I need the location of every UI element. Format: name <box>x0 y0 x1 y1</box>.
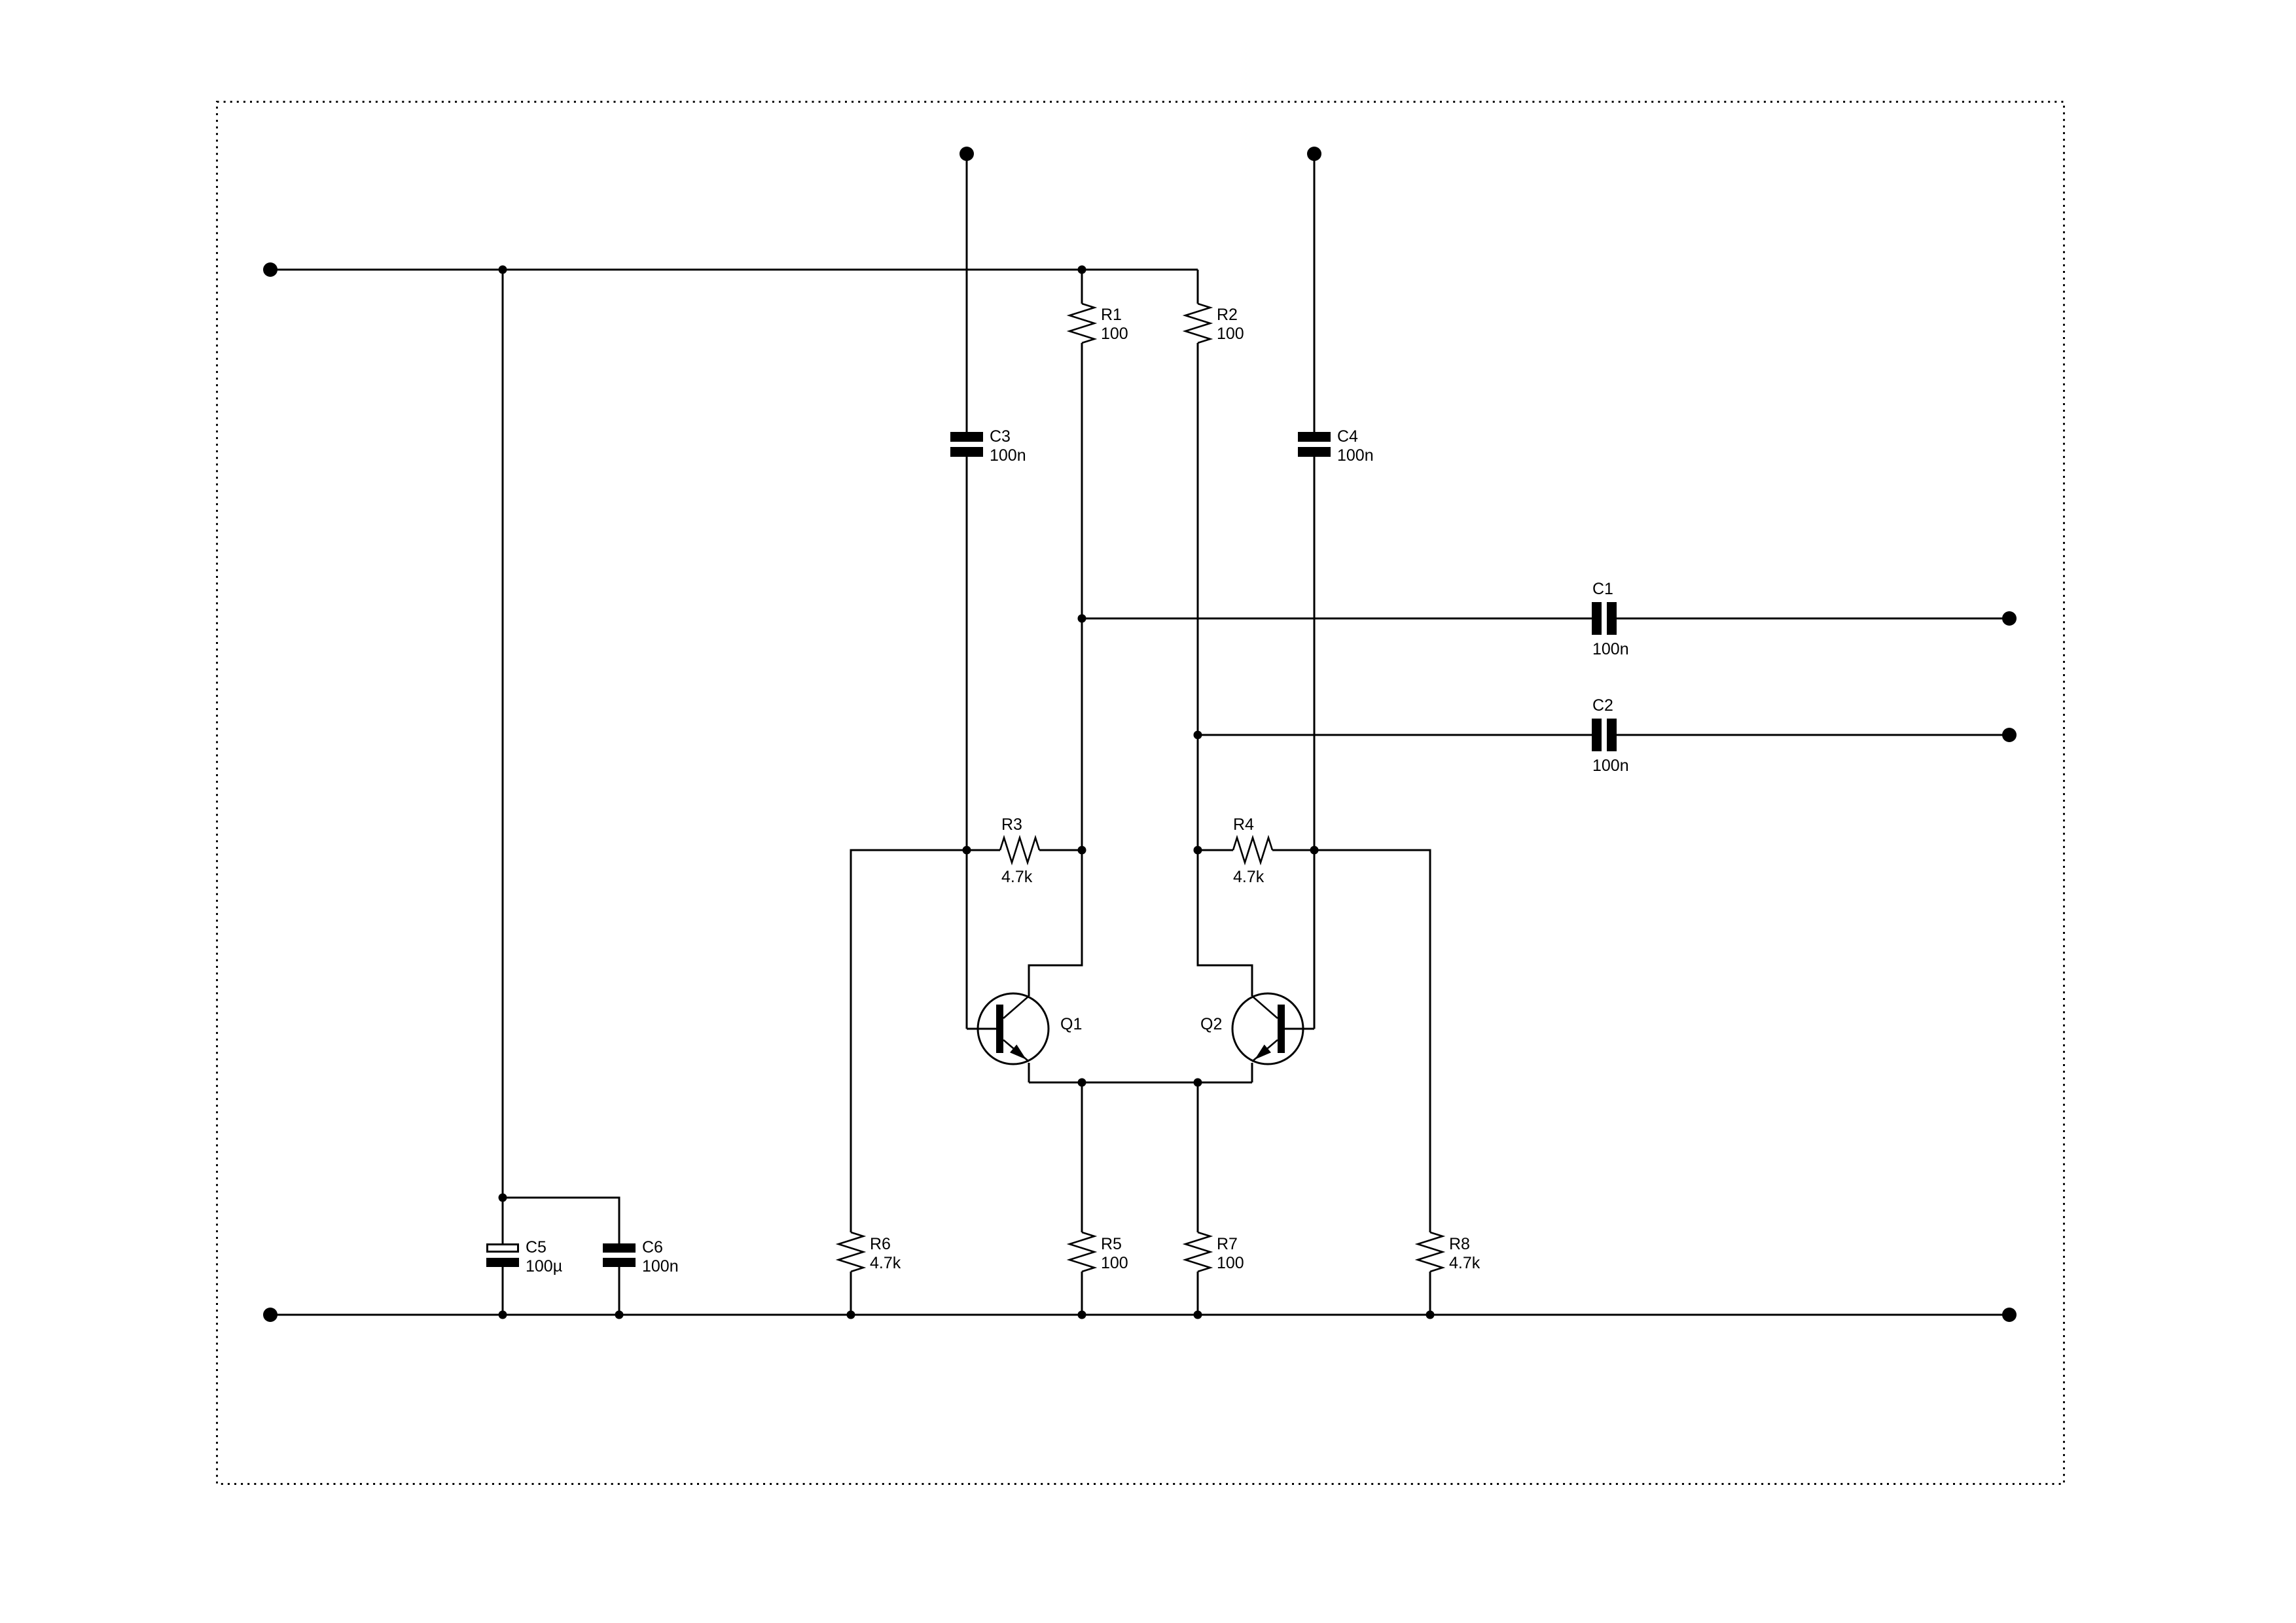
capacitor C2 <box>1592 696 1629 775</box>
capacitor C5 <box>486 1238 562 1315</box>
capacitor C6 <box>603 1238 679 1315</box>
wire Q2 base lead <box>1285 1028 1314 1030</box>
svg-text:4.7k: 4.7k <box>870 1254 901 1272</box>
svg-text:4.7k: 4.7k <box>1449 1254 1480 1272</box>
wire Q1 base lead <box>967 1028 996 1030</box>
svg-text:4.7k: 4.7k <box>1001 868 1033 886</box>
svg-text:R6: R6 <box>870 1235 891 1253</box>
svg-text:Q1: Q1 <box>1060 1015 1082 1033</box>
resistor R5 <box>1069 1082 1128 1315</box>
wire R4 right to R8 branch <box>1314 850 1430 1232</box>
junction VCC/R1 <box>1078 266 1086 274</box>
wire C5 feed from VCC <box>502 270 504 1243</box>
junction R3 left <box>963 846 971 855</box>
svg-text:C1: C1 <box>1592 580 1613 598</box>
junction VCC/C5 branch <box>499 266 507 274</box>
wire T1 to C3 <box>966 154 968 432</box>
junction GND/R5 <box>1078 1311 1086 1319</box>
svg-text:100n: 100n <box>1337 446 1374 465</box>
transistor Q1 <box>978 993 1082 1064</box>
resistor R4 <box>1198 815 1314 886</box>
wire R3 left to R6 branch <box>851 850 967 1232</box>
svg-text:100n: 100n <box>1592 757 1629 775</box>
junction GND/R8 <box>1426 1311 1435 1319</box>
svg-text:C4: C4 <box>1337 427 1358 446</box>
wire T2 to C4 <box>1314 154 1316 432</box>
wire C3 to Q1 base node <box>966 457 968 850</box>
terminal T1 top (C3 input) <box>960 147 974 161</box>
wire GND rail <box>270 1314 2009 1316</box>
wire branch to C6 <box>503 1198 619 1243</box>
junction C5/C6 branch <box>499 1194 507 1202</box>
svg-text:100n: 100n <box>642 1257 679 1275</box>
svg-text:100: 100 <box>1217 1254 1244 1272</box>
wire emitter rail <box>1029 1082 1252 1084</box>
svg-text:100µ: 100µ <box>526 1257 562 1275</box>
svg-text:C2: C2 <box>1592 696 1613 715</box>
svg-text:100n: 100n <box>1592 640 1629 658</box>
terminal OUT1 <box>2002 611 2017 626</box>
svg-text:R2: R2 <box>1217 306 1238 324</box>
svg-text:100: 100 <box>1101 325 1128 343</box>
svg-text:C5: C5 <box>526 1238 547 1257</box>
svg-text:Q2: Q2 <box>1200 1015 1222 1033</box>
junction R4 right <box>1310 846 1319 855</box>
terminal OUT2 <box>2002 728 2017 742</box>
wire Q2 emitter <box>1251 1063 1253 1082</box>
svg-text:C3: C3 <box>990 427 1011 446</box>
svg-text:100: 100 <box>1217 325 1244 343</box>
capacitor C3 <box>950 427 1026 465</box>
resistor R7 <box>1185 1082 1244 1315</box>
terminal T2 top (C4 input) <box>1307 147 1321 161</box>
junction R3 right <box>1078 846 1086 855</box>
wire Q1 collector <box>1029 850 1082 996</box>
wire collector Q2 node to C2 <box>1198 734 1592 736</box>
svg-text:100: 100 <box>1101 1254 1128 1272</box>
wire R2 node down to R4 level <box>1197 735 1199 850</box>
wire base node down <box>966 850 968 1029</box>
svg-text:R3: R3 <box>1001 815 1022 834</box>
capacitor C1 <box>1592 580 1629 658</box>
resistor R2 <box>1185 270 1244 735</box>
svg-text:R8: R8 <box>1449 1235 1470 1253</box>
terminal VCC left <box>263 262 278 277</box>
wire VCC rail <box>270 269 1198 271</box>
transistor Q2 <box>1200 993 1303 1064</box>
resistor R1 <box>1069 270 1128 618</box>
capacitor C4 <box>1298 427 1374 465</box>
wire R1 node down to R3 level <box>1081 618 1083 850</box>
junction C1 tap <box>1078 615 1086 623</box>
svg-text:4.7k: 4.7k <box>1233 868 1265 886</box>
junction R4 left <box>1194 846 1202 855</box>
svg-text:C6: C6 <box>642 1238 663 1257</box>
junction GND/C6 <box>615 1311 624 1319</box>
wire Q2 base node down <box>1314 850 1316 1029</box>
junction emitter/R5 <box>1078 1079 1086 1087</box>
resistor R8 <box>1418 1232 1480 1315</box>
wire C4 to R4 right node <box>1314 457 1316 850</box>
junction C2 tap <box>1194 731 1202 740</box>
junction GND/R6 <box>847 1311 855 1319</box>
terminal GND right <box>2002 1308 2017 1322</box>
svg-text:R5: R5 <box>1101 1235 1122 1253</box>
wire Q2 collector <box>1198 850 1252 996</box>
junction GND/R7 <box>1194 1311 1202 1319</box>
junction emitter/R7 <box>1194 1079 1202 1087</box>
wire C1 to output terminal <box>1617 618 2009 620</box>
svg-text:R1: R1 <box>1101 306 1122 324</box>
terminal GND left <box>263 1308 278 1322</box>
svg-text:R7: R7 <box>1217 1235 1238 1253</box>
wire Q1 emitter <box>1028 1063 1030 1082</box>
resistor R3 <box>967 815 1082 886</box>
svg-text:R4: R4 <box>1233 815 1254 834</box>
resistor R6 <box>838 1232 901 1315</box>
wire collector Q1 node to C1 <box>1082 618 1592 620</box>
svg-text:100n: 100n <box>990 446 1026 465</box>
junction GND/C5 <box>499 1311 507 1319</box>
wire C2 to output terminal <box>1617 734 2009 736</box>
